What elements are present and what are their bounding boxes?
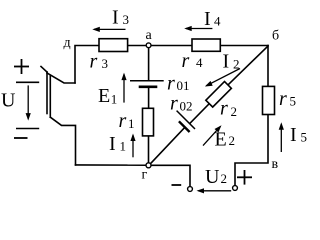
source terminal bar bottom [16,128,39,130]
plus sign of source U [14,59,29,74]
terminal minus circle [188,187,193,192]
svg-text:3: 3 [123,12,130,27]
arrow U (input voltage) [26,85,31,120]
svg-text:I: I [109,133,116,155]
svg-text:г: г [142,168,148,183]
svg-text:E: E [215,129,227,151]
resistor R2 (tilted) [206,82,232,108]
terminal plus circle [233,186,238,191]
arrow I5 [279,122,284,152]
wire E1 to r1 [148,88,150,109]
battery E1 short plate [139,86,158,89]
wire node a to r4 [151,45,192,47]
arrow I4 [184,26,212,31]
svg-text:r: r [167,73,175,95]
svg-text:r: r [182,50,190,72]
battery E2 short plate [179,121,190,132]
arrow E1 [121,73,126,103]
svg-text:U: U [1,90,16,112]
wire source bottom lead [50,117,75,165]
resistor R4 [192,39,220,51]
svg-text:r: r [119,110,127,132]
svg-text:I: I [223,51,230,73]
svg-text:2: 2 [231,104,238,119]
resistor R3 [99,39,128,52]
wire node a down to E1 [148,47,150,80]
arrow I2 (diagonal) [205,69,240,87]
wire r2 to E2 plate [190,104,209,124]
battery E2 long plate [177,111,195,129]
wire top-left from node d to r3 [75,46,99,84]
svg-text:1: 1 [128,116,135,131]
wire r4 to node b [220,45,268,47]
wire r1 to node g [148,136,150,163]
plus sign at U2 terminal [237,170,252,185]
svg-text:01: 01 [177,78,190,93]
svg-text:r: r [90,51,98,73]
svg-text:4: 4 [196,55,203,70]
svg-text:а: а [146,28,153,43]
wire node b down to r5 [267,46,269,87]
wire r5 down to node v and left to plus terminal [235,115,268,186]
svg-text:I: I [204,8,211,30]
svg-text:r: r [279,88,287,110]
svg-text:б: б [272,29,279,44]
resistor R5 [263,86,275,114]
source blade line 2 [49,75,51,117]
node a [146,43,151,48]
svg-text:2: 2 [221,171,228,186]
svg-text:5: 5 [301,130,308,145]
source terminal bar top [16,81,39,83]
svg-text:U: U [205,166,220,188]
svg-text:2: 2 [233,57,240,72]
resistor R1 [143,108,154,136]
minus sign of source U [14,137,28,139]
arrow I1 [130,134,135,158]
wire node g to minus terminal [151,165,190,186]
wire E2 to node g [150,128,184,164]
arrow U2 [197,188,232,193]
svg-text:д: д [64,36,71,51]
svg-text:I: I [112,7,119,29]
source blade line 1 [46,72,48,114]
wire diagonal node b to r2 [228,46,268,85]
svg-text:1: 1 [120,139,127,154]
svg-text:I: I [290,124,297,146]
svg-text:E: E [98,85,110,107]
svg-text:4: 4 [214,14,221,29]
svg-text:r: r [220,98,228,120]
wire bottom left to node g [76,164,147,166]
svg-text:5: 5 [290,94,297,109]
svg-text:3: 3 [102,56,109,71]
svg-text:r: r [170,93,178,115]
wire r3 to node a [128,45,147,47]
arrow I3 [92,27,125,32]
svg-text:в: в [272,157,279,172]
svg-text:1: 1 [111,92,118,107]
node g [146,163,151,168]
wire source top lead [47,73,75,83]
source blade tick [41,67,47,73]
battery E1 long plate [130,80,164,82]
minus sign at U2 terminal [172,184,182,186]
svg-text:2: 2 [229,133,236,148]
arrow E2 (diagonal) [203,125,222,145]
svg-text:02: 02 [180,99,193,114]
